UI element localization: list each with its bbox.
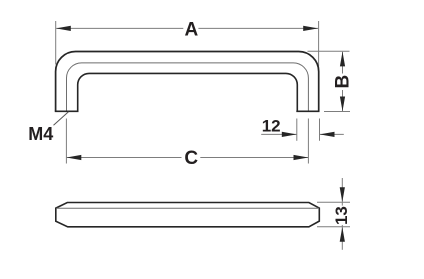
- dimension 13 lower arrowhead: [340, 227, 345, 242]
- dimension C left extension line: [65, 119, 67, 164]
- dimension B line lower segment: [342, 90, 344, 111]
- dimension 13 line lower stub: [341, 225, 343, 227]
- dimension 13 top extension line: [317, 201, 350, 203]
- dimension A right extension line: [318, 21, 320, 67]
- handle inner contour: [78, 73, 298, 111]
- M4 leader line: [54, 112, 69, 125]
- dimension C left arrowhead: [67, 155, 82, 160]
- dimension 13 upper arrow tail: [341, 178, 343, 202]
- svg-text:C: C: [184, 148, 198, 169]
- dimension 12 right leader line: [320, 133, 344, 135]
- dimension B top extension line: [308, 50, 350, 52]
- dimension 12 left leader line: [261, 133, 296, 135]
- side view facet edge line: [56, 207, 319, 209]
- dimension B line upper segment: [342, 52, 344, 74]
- dimension 13 line upper stub: [341, 202, 343, 205]
- right leg bottom edge: [296, 110, 319, 112]
- dimension A line left segment: [56, 27, 183, 29]
- dimension 12 right extension line: [319, 119, 321, 141]
- dimension 12 left extension line: [296, 119, 298, 141]
- svg-text:12: 12: [262, 116, 281, 135]
- dimension 13 lower arrow tail: [341, 227, 343, 250]
- handle outer contour: [56, 52, 319, 112]
- svg-text:13: 13: [332, 206, 351, 225]
- dimension B lower arrowhead: [340, 97, 345, 112]
- dimension 12 right arrowhead: [320, 132, 335, 137]
- dimension 13 bottom extension line: [317, 226, 350, 228]
- svg-text:B: B: [332, 75, 353, 89]
- dimension B upper arrowhead: [340, 52, 345, 67]
- svg-text:A: A: [185, 19, 199, 40]
- dimension C right arrowhead: [294, 155, 309, 160]
- dimension C line left segment: [67, 157, 182, 159]
- handle middle contour line: [67, 63, 309, 112]
- dimension 13 upper arrowhead: [340, 187, 345, 202]
- dimension A right arrowhead: [303, 26, 318, 31]
- dimension B bottom extension line: [324, 111, 350, 113]
- dimension 12 left arrowhead: [282, 132, 297, 137]
- side view outline: [56, 203, 320, 227]
- svg-text:M4: M4: [28, 124, 53, 144]
- left leg bottom edge: [55, 110, 79, 112]
- dimension A left arrowhead: [56, 26, 71, 31]
- dimension C right extension line: [307, 119, 309, 164]
- dimension C line right segment: [200, 157, 308, 159]
- dimension A left extension line: [55, 21, 57, 65]
- dimension A line right segment: [198, 27, 318, 29]
